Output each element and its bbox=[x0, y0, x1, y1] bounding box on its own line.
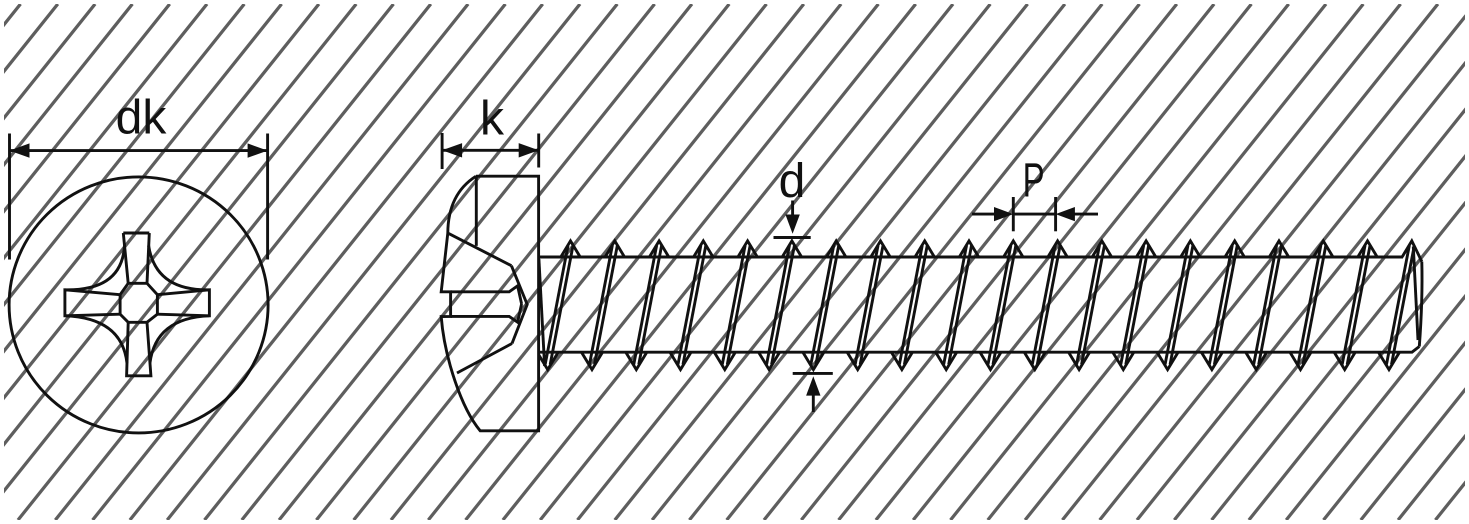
dk arrowhead left bbox=[10, 143, 30, 157]
P arrowhead left-pointing bbox=[1056, 207, 1075, 221]
thread crest top 7 bbox=[871, 241, 890, 257]
thread crest top 1 bbox=[605, 241, 624, 257]
thread crest top 13 bbox=[1136, 241, 1155, 257]
phillips fillet bottom-right bbox=[150, 316, 210, 364]
recess side slot lower bbox=[451, 304, 522, 322]
recess side upper diagonal bbox=[448, 233, 512, 266]
thread crest bottom 3 bbox=[670, 352, 691, 369]
dk dimension line bbox=[10, 149, 268, 152]
thread crest top 4 bbox=[738, 241, 757, 257]
P dimension tick left bbox=[1012, 197, 1015, 231]
dk dimension extension line left bbox=[8, 134, 11, 260]
thread crest bottom 14 bbox=[1157, 352, 1178, 369]
thread crest top 8 bbox=[915, 241, 934, 257]
thread flank pair 8 bbox=[899, 246, 922, 365]
thread crest bottom 13 bbox=[1113, 352, 1134, 369]
thread crest top 15 bbox=[1225, 241, 1244, 257]
P dimension line bbox=[1013, 213, 1055, 216]
P dimension right tail bbox=[1069, 213, 1098, 216]
d dimension top arrow shaft bbox=[791, 201, 794, 221]
k dimension extension line left bbox=[441, 133, 444, 169]
dk arrowhead right bbox=[248, 143, 268, 157]
thread flank pair 19 bbox=[1387, 246, 1410, 365]
phillips fillet top-left bbox=[65, 246, 125, 290]
thread flank pair 13 bbox=[1121, 246, 1144, 365]
thread flank pair 18 bbox=[1342, 246, 1365, 365]
thread crest bottom 19 bbox=[1379, 352, 1400, 369]
thread top envelope line bbox=[540, 256, 1403, 259]
d dimension bottom tick bbox=[793, 372, 833, 375]
thread crest bottom 4 bbox=[714, 352, 735, 369]
thread crest top 11 bbox=[1048, 241, 1067, 257]
phillips recess right arm bbox=[157, 290, 209, 316]
dk dimension extension line right bbox=[266, 134, 269, 260]
phillips recess octagon center bbox=[120, 283, 157, 322]
d arrowhead down bbox=[785, 215, 799, 234]
recess side vertical line bbox=[475, 176, 478, 246]
thread flank pair 2 bbox=[634, 246, 657, 365]
thread crest bottom 9 bbox=[936, 352, 957, 369]
thread flank pair 1 bbox=[590, 246, 613, 365]
d dimension bottom arrow shaft bbox=[812, 392, 815, 412]
thread crest top 18 bbox=[1358, 241, 1377, 257]
svg-text:d: d bbox=[779, 155, 806, 208]
thread flank pair 12 bbox=[1077, 246, 1100, 365]
P dimension left tail bbox=[972, 213, 1000, 216]
phillips recess bottom arm bbox=[127, 322, 151, 376]
head side view outline bbox=[441, 176, 538, 431]
screw tip inner line bbox=[1413, 247, 1418, 341]
thread crest top 3 bbox=[694, 241, 713, 257]
thread crest top 12 bbox=[1092, 241, 1111, 257]
thread crest top 10 bbox=[1004, 241, 1023, 257]
thread bottom envelope line bbox=[540, 347, 1419, 353]
thread crest bottom 2 bbox=[626, 352, 647, 369]
phillips fillet top-right bbox=[149, 246, 210, 290]
thread flank pair 11 bbox=[1032, 246, 1055, 365]
thread flank pair 15 bbox=[1209, 246, 1232, 365]
recess side big chevron bbox=[511, 266, 527, 344]
phillips fillet bottom-left bbox=[65, 316, 127, 364]
recess side slot upper bbox=[451, 286, 522, 304]
thread start flank at head bbox=[539, 259, 545, 366]
svg-text:P: P bbox=[1023, 155, 1045, 208]
d dimension top tick bbox=[774, 236, 811, 239]
thread crest top 0 bbox=[561, 241, 580, 257]
thread crest bottom 5 bbox=[759, 352, 780, 369]
thread flank pair 6 bbox=[811, 246, 834, 365]
svg-text:k: k bbox=[480, 93, 505, 146]
d arrowhead up bbox=[806, 376, 820, 395]
phillips recess top arm bbox=[123, 232, 149, 235]
thread crest bottom 0 bbox=[537, 352, 558, 369]
screw tip end edge bbox=[1419, 262, 1422, 347]
thread crest top 19 bbox=[1402, 241, 1422, 262]
thread flank pair 5 bbox=[767, 246, 790, 365]
thread crest bottom 12 bbox=[1069, 352, 1090, 369]
thread crest top 17 bbox=[1314, 241, 1333, 257]
recess side lower diagonal bbox=[457, 344, 512, 374]
thread crest top 9 bbox=[959, 241, 978, 257]
thread crest top 14 bbox=[1181, 241, 1200, 257]
thread crest top 6 bbox=[827, 241, 846, 257]
thread crest bottom 7 bbox=[847, 352, 868, 369]
svg-text:dk: dk bbox=[116, 92, 168, 145]
thread crest bottom 16 bbox=[1246, 352, 1267, 369]
thread flank pair 0 bbox=[545, 246, 568, 365]
screw thread bbox=[537, 241, 1422, 370]
thread flank pair 7 bbox=[855, 246, 878, 365]
k arrowhead right bbox=[519, 143, 539, 157]
k arrowhead left bbox=[442, 143, 462, 157]
P arrowhead right-pointing bbox=[994, 207, 1013, 221]
thread crest bottom 11 bbox=[1024, 352, 1045, 369]
thread flank pair 9 bbox=[944, 246, 967, 365]
k dimension extension line right bbox=[537, 134, 540, 168]
thread crest bottom 6 bbox=[803, 352, 824, 369]
thread crest bottom 17 bbox=[1290, 352, 1311, 369]
thread crest top 16 bbox=[1269, 241, 1288, 257]
thread crest bottom 18 bbox=[1334, 352, 1355, 369]
thread crest top 5 bbox=[782, 241, 801, 257]
thread flank pair 14 bbox=[1165, 246, 1188, 365]
thread flank pair 3 bbox=[678, 246, 701, 365]
phillips recess left arm bbox=[65, 290, 120, 316]
thread flank pair 10 bbox=[988, 246, 1011, 365]
thread crest bottom 10 bbox=[980, 352, 1001, 369]
thread flank pair 17 bbox=[1298, 246, 1321, 365]
thread flank pair 16 bbox=[1254, 246, 1277, 365]
thread flank pair 4 bbox=[722, 246, 745, 365]
thread crest bottom 15 bbox=[1201, 352, 1222, 369]
k dimension line bbox=[442, 149, 539, 152]
thread crest bottom 1 bbox=[582, 352, 603, 369]
head outline circle (top view) bbox=[9, 177, 268, 433]
thread crest top 2 bbox=[649, 241, 668, 257]
P dimension tick right bbox=[1054, 197, 1057, 231]
thread crest bottom 8 bbox=[891, 352, 912, 369]
